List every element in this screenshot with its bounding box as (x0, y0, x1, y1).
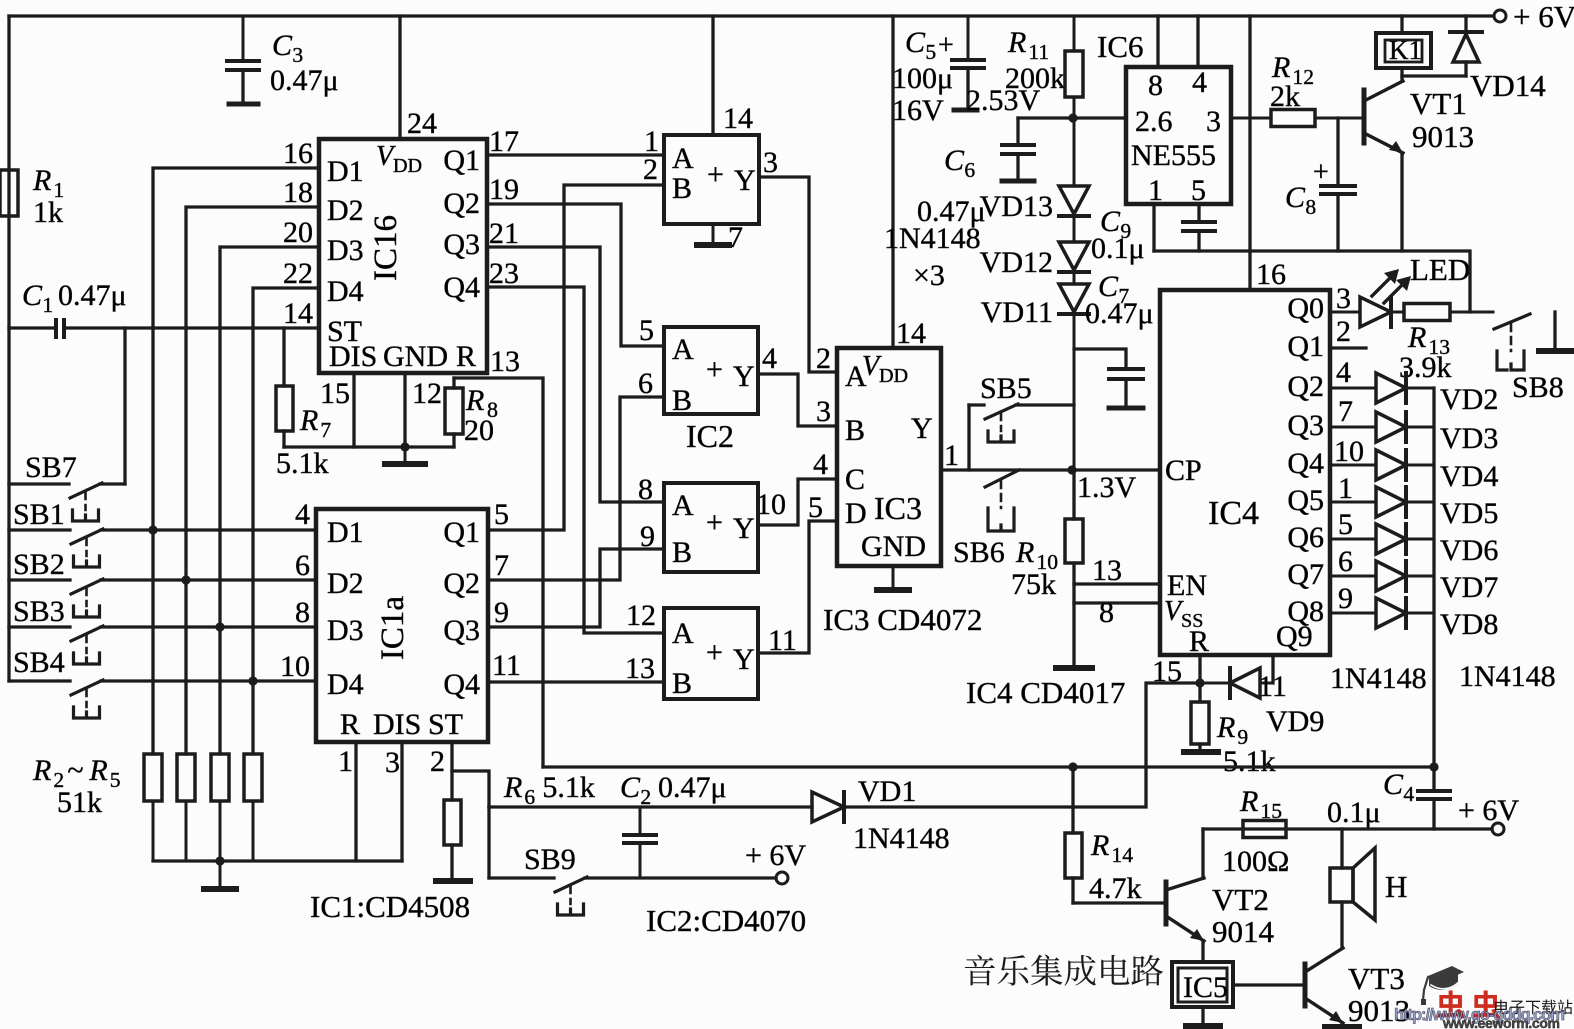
relay K1 (1400, 16, 1403, 33)
transistor VT2 9014 (1164, 882, 1169, 924)
wire R6/C2 line through VD1 to IC4 pin15 (489, 805, 812, 808)
svg-text:R: R (32, 754, 51, 787)
svg-text:IC1a: IC1a (375, 596, 411, 661)
svg-text:5: 5 (808, 491, 823, 524)
svg-text:8: 8 (1148, 69, 1163, 102)
XOR gate IC2-4 box (664, 608, 758, 699)
svg-text:CP: CP (1165, 454, 1202, 487)
svg-text:B: B (672, 384, 692, 417)
svg-text:×3: ×3 (913, 259, 945, 292)
wire VD common cathode bus (1432, 388, 1435, 767)
node SB2/bus2 junction (181, 575, 190, 584)
resistor R4 (219, 753, 222, 756)
resistor R12 (1231, 117, 1271, 120)
switch SB1 (9, 528, 70, 531)
svg-text:20: 20 (464, 414, 494, 447)
wire gate4 Y to IC3 D (758, 521, 837, 653)
svg-text:Y: Y (911, 412, 933, 445)
svg-text:C: C (272, 29, 293, 62)
svg-text:0.47μ: 0.47μ (1085, 297, 1154, 330)
IC16 (CD4508 half) box (319, 139, 487, 373)
svg-text:SB4: SB4 (13, 646, 65, 679)
svg-text:VD2: VD2 (1440, 383, 1498, 416)
resistor R5 (252, 753, 255, 756)
svg-text:8: 8 (638, 473, 653, 506)
left rail wire (7, 16, 10, 681)
svg-text:VT2: VT2 (1212, 882, 1269, 917)
power rail +6V (top) (9, 14, 1493, 17)
wire VT1 emitter down (1400, 153, 1403, 251)
svg-text:R: R (1189, 625, 1209, 658)
svg-text:A: A (672, 489, 694, 522)
switch SB9 and +6V terminal (487, 807, 490, 878)
svg-text:8: 8 (1305, 195, 1316, 219)
svg-text:4: 4 (762, 342, 777, 375)
pin 4 NE555 (1196, 16, 1199, 67)
svg-text:D2: D2 (327, 194, 364, 227)
svg-text:D1: D1 (327, 155, 364, 188)
diode VD6 (1330, 538, 1376, 541)
svg-text:R: R (1007, 26, 1026, 59)
svg-text:16V: 16V (892, 94, 944, 127)
ground (R10/VSS) (1056, 665, 1092, 671)
svg-text:VD14: VD14 (1470, 68, 1546, 103)
wire R14 to VT2 base (1073, 901, 1164, 904)
resistor R11 (1073, 16, 1076, 51)
svg-text:1N4148: 1N4148 (1330, 662, 1427, 695)
svg-text:GND: GND (861, 530, 926, 563)
svg-text:1k: 1k (33, 196, 63, 229)
svg-text:IC3: IC3 (874, 490, 922, 526)
svg-text:D: D (845, 497, 867, 530)
svg-text:Y: Y (734, 164, 756, 197)
svg-text:VD4: VD4 (1440, 460, 1498, 493)
svg-text:C: C (944, 144, 965, 177)
svg-text:5.1k: 5.1k (542, 771, 595, 804)
wire VT3 collector to speaker (1340, 902, 1343, 948)
svg-text:VD8: VD8 (1440, 608, 1498, 641)
svg-text:1N4148: 1N4148 (1459, 660, 1556, 693)
wire R2-R5 common ground bus (153, 859, 402, 862)
svg-text:0.47μ: 0.47μ (58, 279, 127, 312)
svg-text:14: 14 (1111, 843, 1133, 867)
wire bus1 (IC16 D1) (153, 168, 319, 754)
wire IC1a Q1 to gate1 B (5) (488, 185, 664, 530)
svg-text:K1: K1 (1389, 35, 1422, 65)
svg-text:D3: D3 (327, 234, 364, 267)
svg-text:0.47μ: 0.47μ (658, 771, 727, 804)
svg-text:VD5: VD5 (1440, 497, 1498, 530)
ground (R6) (436, 878, 470, 884)
wire NE555 ground line to SB8 (1154, 251, 1470, 312)
svg-text:NE555: NE555 (1131, 139, 1216, 172)
svg-text:2k: 2k (1270, 80, 1300, 113)
wire IC16 Q2 to gate2 A (19) (487, 204, 664, 346)
ground (R2~R5) (219, 861, 222, 889)
wire IC16 Q1 to gate1 A (pin 17 to 1) (487, 153, 664, 156)
svg-text:IC1:CD4508: IC1:CD4508 (310, 889, 470, 924)
svg-text:A: A (672, 142, 694, 175)
svg-text:A: A (672, 333, 694, 366)
svg-text:DD: DD (393, 155, 422, 177)
wire IC3 Y to IC4 CP (941, 468, 1160, 471)
capacitor C7 with end bar (1074, 349, 1126, 369)
resistor R1 (8, 150, 11, 170)
svg-text:SB6: SB6 (953, 536, 1005, 569)
svg-text:R: R (465, 384, 484, 417)
svg-text:C: C (620, 771, 641, 804)
wire gate3 Y to IC3 C (758, 479, 837, 525)
svg-text:5: 5 (639, 314, 654, 347)
svg-text:IC2: IC2 (686, 418, 734, 454)
svg-text:Q1: Q1 (1287, 330, 1324, 363)
svg-text:R: R (299, 404, 318, 437)
switch SB6 (985, 470, 1019, 487)
svg-text:3: 3 (385, 746, 400, 779)
wire IC16 Q4 to gate4 A (23) (487, 287, 664, 633)
diode VD7 (1330, 575, 1376, 578)
ground (IC3 GND) (892, 566, 895, 590)
XOR gate IC2-1 box (664, 135, 759, 224)
resistor R3 (185, 753, 188, 756)
svg-text:0.1μ: 0.1μ (1327, 796, 1381, 829)
svg-text:14: 14 (283, 297, 313, 330)
svg-text:10: 10 (756, 488, 786, 521)
switch SB2 (9, 578, 70, 581)
svg-text:100Ω: 100Ω (1222, 845, 1289, 878)
svg-text:2: 2 (430, 745, 445, 778)
wire IC16 Q3 to gate3 A (21) (487, 247, 664, 502)
wire VSS pin8 IC4 (1074, 601, 1160, 604)
svg-text:R: R (1015, 536, 1034, 569)
resistor R15 (1203, 828, 1243, 831)
svg-text:1: 1 (1338, 472, 1353, 505)
node R11/diode chain junction (1068, 113, 1077, 122)
svg-text:21: 21 (489, 217, 519, 250)
terminal +6V top right (1494, 10, 1506, 22)
wire IC16 pin13 R line (454, 378, 543, 767)
svg-text:19: 19 (489, 173, 519, 206)
svg-text:16: 16 (1256, 258, 1286, 291)
node SB4/bus4 junction (248, 676, 257, 685)
svg-text:12: 12 (412, 377, 442, 410)
svg-text:SB8: SB8 (1512, 371, 1564, 404)
wire ST branch to R6/C2 line (452, 771, 489, 807)
svg-text:51k: 51k (57, 786, 102, 819)
node CP/diode-chain junction (1067, 465, 1076, 474)
svg-text:+: + (706, 506, 723, 539)
svg-text:D2: D2 (327, 567, 364, 600)
svg-text:2.6: 2.6 (1135, 105, 1173, 138)
svg-text:24: 24 (407, 107, 437, 140)
svg-text:2: 2 (816, 342, 831, 375)
svg-text:D1: D1 (327, 516, 364, 549)
svg-text:D3: D3 (327, 614, 364, 647)
transistor VT3 9013 (1303, 964, 1308, 1006)
svg-text:Q4: Q4 (1287, 447, 1324, 480)
pin 16 IC4 VDD riser (1248, 16, 1251, 290)
svg-text:DIS: DIS (329, 340, 377, 373)
svg-text:7: 7 (1338, 395, 1353, 428)
svg-text:3: 3 (816, 395, 831, 428)
svg-text:7: 7 (494, 549, 509, 582)
speaker H (1340, 829, 1343, 868)
svg-text:Q7: Q7 (1287, 558, 1324, 591)
diode VD1 (811, 806, 814, 809)
svg-text:Q6: Q6 (1287, 521, 1324, 554)
svg-text:Q2: Q2 (443, 567, 480, 600)
svg-text:11: 11 (1028, 40, 1049, 64)
svg-text:1: 1 (42, 293, 53, 317)
transistor VT1 9013 (1362, 90, 1367, 143)
wire VT1 collector to K1 (1400, 68, 1403, 81)
svg-text:Y: Y (733, 643, 755, 676)
svg-text:B: B (672, 172, 692, 205)
svg-text:R: R (340, 708, 360, 741)
diode VD9 (1271, 655, 1274, 683)
resistor R6 (450, 742, 453, 800)
wire row D1 to IC1a (101, 528, 316, 531)
svg-text:R: R (1407, 321, 1426, 354)
svg-text:15: 15 (1260, 799, 1282, 823)
svg-text:15: 15 (320, 377, 350, 410)
svg-text:IC4: IC4 (1208, 495, 1259, 532)
wire row D4 to IC1a (101, 679, 316, 682)
diode VD13 (1073, 118, 1076, 186)
svg-text:R: R (1216, 711, 1235, 744)
ground (C6) (1002, 179, 1034, 184)
capacitor C6 (1016, 118, 1019, 145)
svg-text:5: 5 (110, 768, 121, 792)
resistor R9 (1198, 683, 1201, 702)
svg-text:+: + (938, 30, 954, 61)
svg-text:ST: ST (428, 708, 463, 741)
switch SB8 with ground (1494, 314, 1530, 329)
svg-text:VT3: VT3 (1348, 961, 1405, 996)
svg-text:VD11: VD11 (981, 296, 1053, 329)
resistor R14 (1071, 767, 1074, 833)
svg-text:SB3: SB3 (13, 595, 65, 628)
wire IC1a Q3 to gate3 B (9) (488, 549, 664, 627)
resistor R2 (152, 753, 155, 756)
wire gate1 Y to IC3 A (759, 177, 837, 372)
svg-text:VD13: VD13 (980, 190, 1053, 223)
svg-text:2: 2 (1336, 315, 1351, 348)
diode VD14 across relay (1464, 16, 1467, 31)
pin 1 NE555 lead (1152, 204, 1155, 251)
wire pins 2,6 NE555 (1018, 116, 1126, 119)
svg-text:Q4: Q4 (443, 668, 480, 701)
XOR gate IC2-3 box (664, 483, 758, 572)
svg-text:SB1: SB1 (13, 498, 65, 531)
svg-text:100μ: 100μ (892, 62, 953, 95)
wire SB7 riser (123, 328, 126, 484)
pin 7 gate1 GND + ground (712, 224, 715, 245)
wire IC1a Q2 to gate2 B (7) (488, 397, 664, 580)
svg-text:+ 6V: + 6V (1513, 0, 1574, 34)
svg-text:11: 11 (1258, 670, 1287, 703)
svg-text:23: 23 (489, 257, 519, 290)
svg-text:IC3 CD4072: IC3 CD4072 (823, 602, 982, 637)
svg-text:IC5: IC5 (1183, 971, 1228, 1004)
svg-text:75k: 75k (1011, 568, 1056, 601)
svg-text:VD3: VD3 (1440, 422, 1498, 455)
svg-text:Q3: Q3 (1287, 409, 1324, 442)
svg-text:B: B (672, 667, 692, 700)
svg-text:R: R (503, 771, 522, 804)
svg-text:5: 5 (494, 498, 509, 531)
svg-text:14: 14 (896, 317, 926, 350)
wire bus3 (IC16 D3) (220, 247, 319, 754)
svg-text:12: 12 (626, 599, 656, 632)
svg-text:Q1: Q1 (443, 144, 480, 177)
svg-text:+: + (1313, 157, 1329, 188)
svg-text:14: 14 (723, 102, 753, 135)
svg-text:SB5: SB5 (980, 372, 1032, 405)
svg-text:0.1μ: 0.1μ (1091, 232, 1145, 265)
ground (VT3 emitter) (1340, 1023, 1343, 1026)
diode VD5 (1330, 501, 1376, 504)
pin 1 R lead IC1a (354, 742, 357, 861)
wire bus4 (IC16 D4) (253, 288, 319, 754)
svg-text:11: 11 (492, 649, 521, 682)
wire +6V bottom right line (1203, 827, 1492, 830)
svg-text:18: 18 (283, 176, 313, 209)
svg-text:1N4148: 1N4148 (853, 822, 950, 855)
diode VD11 (1073, 283, 1076, 286)
svg-text:B: B (845, 414, 865, 447)
resistor R13 (1391, 311, 1404, 314)
pin 14 IC3 VDD (891, 16, 894, 348)
wire ST line from C1 to IC16 (9, 326, 56, 329)
svg-text:13: 13 (1092, 554, 1122, 587)
svg-text:Q9: Q9 (1276, 620, 1313, 653)
svg-text:4: 4 (813, 448, 828, 481)
ground (R9) (1184, 749, 1218, 755)
svg-text:Q0: Q0 (1287, 292, 1324, 325)
svg-text:5.1k: 5.1k (276, 447, 329, 480)
svg-text:IC4 CD4017: IC4 CD4017 (966, 675, 1125, 710)
svg-text:DD: DD (879, 365, 908, 387)
svg-text:R: R (88, 754, 107, 787)
ground (IC16 GND) (404, 447, 407, 464)
IC1a box (316, 509, 488, 742)
svg-text:9014: 9014 (1212, 914, 1275, 949)
svg-text:13: 13 (490, 345, 520, 378)
svg-text:1: 1 (1148, 174, 1163, 207)
svg-text:+: + (706, 353, 723, 386)
svg-text:C: C (845, 463, 865, 496)
svg-text:5: 5 (1191, 174, 1206, 207)
svg-text:www.eeworm.com: www.eeworm.com (1442, 1015, 1560, 1029)
diode VD4 (1330, 464, 1376, 467)
svg-text:D4: D4 (327, 668, 364, 701)
capacitor C8 electrolytic (1336, 118, 1339, 186)
svg-text:4: 4 (1336, 356, 1351, 389)
svg-text:22: 22 (283, 257, 313, 290)
svg-text:VD1: VD1 (858, 775, 916, 808)
svg-text:DIS: DIS (373, 708, 421, 741)
wire VT2 collector to R15 (1201, 829, 1204, 878)
wire IC5 out to VT3 base (1233, 983, 1303, 986)
svg-text:+: + (707, 158, 724, 191)
svg-text:VT1: VT1 (1410, 86, 1467, 121)
svg-text:0.47μ: 0.47μ (270, 64, 339, 97)
svg-text:17: 17 (489, 125, 519, 158)
watermark red text (1437, 991, 1465, 1019)
svg-text:16: 16 (283, 137, 313, 170)
svg-text:4: 4 (1192, 66, 1207, 99)
svg-text:1.3V: 1.3V (1077, 471, 1137, 504)
svg-text:LED: LED (1410, 252, 1470, 287)
svg-text:9: 9 (640, 520, 655, 553)
switch SB3 (9, 625, 70, 628)
svg-text:VD6: VD6 (1440, 534, 1498, 567)
svg-text:SB7: SB7 (25, 451, 77, 484)
diode VD2 (1330, 387, 1376, 390)
svg-text:~: ~ (67, 754, 83, 787)
watermark site name (1495, 1000, 1508, 1014)
pin 15 IC4 R lead (1198, 655, 1201, 683)
wire gate2 Y to IC3 B (758, 374, 837, 426)
pin 24 IC16 VDD (398, 16, 401, 139)
svg-text:8: 8 (295, 596, 310, 629)
svg-text:VD7: VD7 (1440, 571, 1498, 604)
svg-text:Q2: Q2 (443, 187, 480, 220)
switch SB4 (9, 679, 70, 682)
svg-text:8: 8 (1099, 596, 1114, 629)
svg-text:4: 4 (295, 498, 310, 531)
svg-text:VD9: VD9 (1266, 705, 1324, 738)
svg-text:C: C (1285, 181, 1306, 214)
resistor R10 (1072, 470, 1075, 519)
svg-text:5.1k: 5.1k (1223, 745, 1276, 778)
svg-text:5: 5 (1338, 508, 1353, 541)
svg-text:Y: Y (733, 360, 755, 393)
svg-text:Q4: Q4 (443, 271, 480, 304)
IC3 CD4072 box (837, 348, 941, 566)
svg-text:9: 9 (1338, 582, 1353, 615)
svg-text:A: A (672, 617, 694, 650)
svg-text:SB2: SB2 (13, 548, 65, 581)
svg-text:9: 9 (494, 596, 509, 629)
svg-text:1N4148: 1N4148 (884, 222, 981, 255)
wire Q1 stub pin2 (1330, 346, 1366, 349)
resistor R7 (282, 328, 285, 386)
music IC chinese label (965, 955, 995, 986)
svg-text:6: 6 (295, 549, 310, 582)
svg-text:1: 1 (944, 439, 959, 472)
svg-text:6: 6 (964, 158, 975, 182)
XOR gate IC2-2 box (664, 327, 758, 414)
node R9/VD9/pin15 junction (1195, 678, 1204, 687)
svg-text:4.7k: 4.7k (1089, 872, 1142, 905)
svg-text:R: R (32, 164, 51, 197)
switch SB7 (9, 482, 69, 485)
capacitor C3 (242, 16, 245, 61)
node SB1/bus1 junction (148, 525, 157, 534)
svg-text:Q1: Q1 (443, 516, 480, 549)
svg-text:10: 10 (280, 650, 310, 683)
svg-text:3: 3 (1206, 105, 1221, 138)
svg-text:GND: GND (383, 340, 448, 373)
svg-text:200k: 200k (1005, 62, 1065, 95)
svg-text:Y: Y (733, 512, 755, 545)
svg-text:R: R (1239, 785, 1258, 818)
svg-text:1: 1 (338, 745, 353, 778)
capacitor C9 on pin 5 (1197, 204, 1200, 222)
switch SB5 (967, 405, 970, 470)
